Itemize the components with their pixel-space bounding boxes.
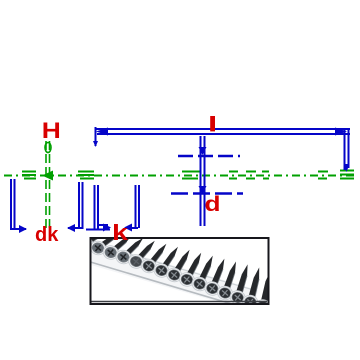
svg-text:d: d bbox=[205, 192, 221, 216]
svg-text:H: H bbox=[42, 119, 61, 143]
svg-text:dk: dk bbox=[35, 224, 59, 246]
svg-text:k: k bbox=[112, 221, 129, 245]
